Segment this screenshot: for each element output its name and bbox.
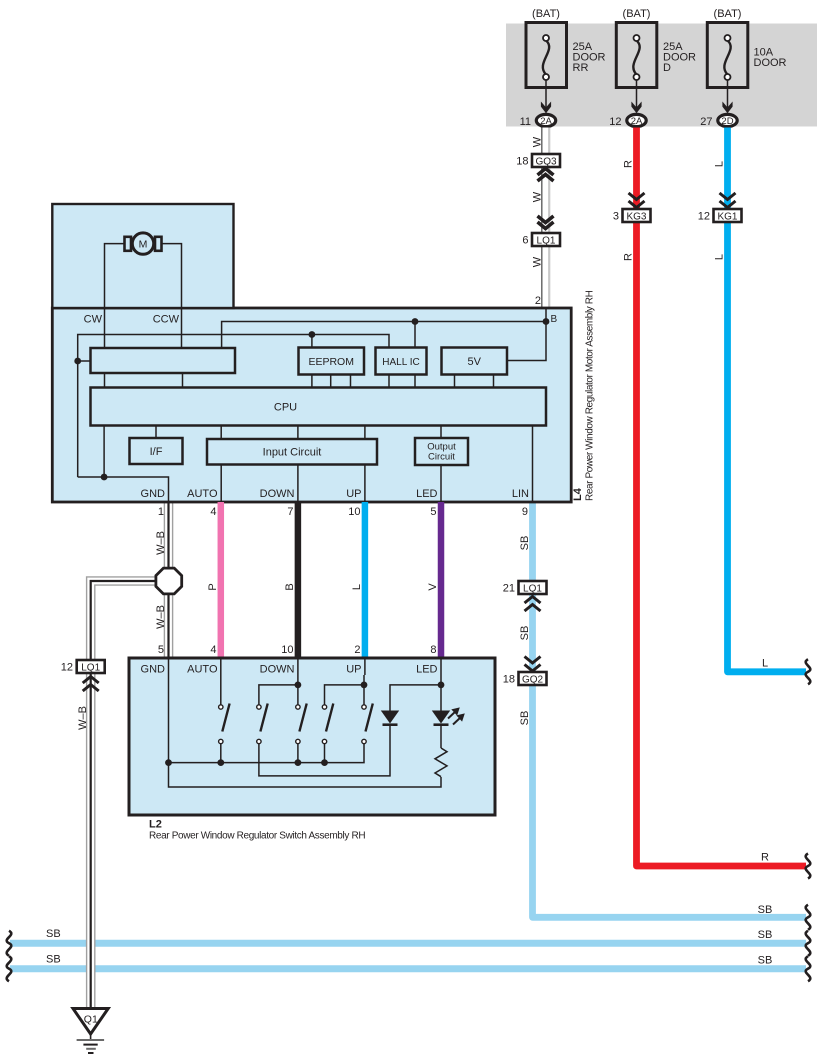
svg-text:UP: UP	[346, 664, 361, 676]
svg-text:2: 2	[354, 644, 360, 656]
connector GQ2 pin 18	[519, 672, 547, 685]
wire CPU to LIN pin 9	[532, 426, 534, 503]
wire 5V bottom pins	[455, 375, 494, 388]
svg-text:Circuit: Circuit	[428, 452, 455, 463]
svg-text:P: P	[207, 583, 219, 590]
wire fuse2 to connector 2A	[636, 80, 638, 113]
LED D2	[432, 707, 465, 724]
label SB (LIN wire, upper)	[519, 536, 531, 551]
svg-text:R: R	[623, 160, 635, 168]
diode D1	[381, 711, 399, 725]
chevron join on SB wire above GQ2 (pointing down)	[525, 657, 541, 672]
wire V (violet) LED	[438, 502, 445, 658]
svg-text:LIN: LIN	[512, 488, 529, 500]
block HALL IC	[376, 348, 427, 375]
arrow into connector 2D	[722, 102, 732, 114]
svg-text:GQ3: GQ3	[535, 156, 557, 167]
break symbol wire SB3 right edge	[806, 956, 811, 981]
svg-text:W–B: W–B	[155, 531, 167, 555]
wire motor CW lead	[105, 244, 125, 348]
block Output Circuit	[415, 438, 468, 465]
svg-text:W: W	[532, 256, 544, 267]
wire S2 bottom to diode bus 2	[259, 725, 390, 776]
svg-text:CCW: CCW	[153, 314, 180, 326]
svg-text:D: D	[663, 62, 671, 74]
break symbol wire SB2 right edge	[806, 931, 811, 956]
svg-text:M: M	[139, 239, 148, 251]
wire W-B branch from junction J octagon to ground (gray outline)	[91, 581, 160, 1008]
svg-text:L: L	[714, 161, 726, 167]
label SB (LIN wire, lower)	[519, 711, 531, 726]
junction dot LED	[438, 682, 445, 689]
svg-text:10: 10	[348, 506, 360, 518]
svg-text:(BAT): (BAT)	[714, 8, 742, 20]
svg-text:V: V	[427, 583, 439, 591]
svg-text:3: 3	[613, 211, 619, 223]
svg-text:W: W	[532, 136, 544, 147]
wire fuse3 to connector 2D	[727, 80, 729, 113]
arrow into connector 2A	[541, 102, 551, 114]
fuse 25A DOOR RR	[526, 23, 567, 88]
wire CPU to I/F	[155, 426, 157, 439]
svg-text:SB: SB	[519, 626, 531, 641]
svg-text:CPU: CPU	[274, 402, 297, 414]
svg-text:Rear Power Window Regulator Mo: Rear Power Window Regulator Motor Assemb…	[585, 290, 596, 501]
resistor	[435, 748, 447, 777]
svg-text:SB: SB	[758, 955, 773, 967]
motor assembly L4 upper box	[52, 204, 233, 308]
wire Output Circuit bottom pin	[440, 465, 442, 502]
chevron join on SB wire below LQ1 (pointing up)	[525, 597, 541, 612]
junction dot HALL IC top	[412, 318, 419, 325]
svg-text:Input Circuit: Input Circuit	[263, 447, 322, 459]
svg-text:SB: SB	[758, 929, 773, 941]
block CPU	[91, 388, 547, 426]
svg-text:W–B: W–B	[155, 605, 167, 629]
label V	[427, 583, 439, 591]
svg-text:1: 1	[158, 506, 164, 518]
junction dot GND rail	[101, 474, 108, 481]
junction dot S4 bus	[321, 759, 328, 766]
connector LQ1 pin 12	[77, 660, 105, 673]
wire line B (left rail to HALL IC)	[78, 335, 389, 478]
wire S4 bottom to bus	[324, 744, 326, 763]
connector KG1 pin 12	[714, 209, 742, 222]
driver block (unnamed)	[91, 348, 236, 373]
junction dot driver left	[74, 358, 81, 365]
svg-text:SB: SB	[519, 711, 531, 726]
wire W from 2A pin11 to motor box pin 2 (white band)	[542, 128, 549, 309]
arrow into connector 2A (fuse2)	[631, 102, 641, 114]
label W-B (GND column upper)	[155, 531, 167, 555]
wire SB (LIN) from motor box down and right to edge	[533, 502, 807, 917]
switch S3 (DOWN right)	[296, 704, 307, 744]
svg-text:12: 12	[609, 116, 621, 128]
connector LQ1 pin 6	[532, 233, 560, 246]
wire driver bottom pins to CPU	[105, 373, 183, 388]
wire W right edge	[548, 128, 550, 309]
svg-text:(BAT): (BAT)	[532, 8, 560, 20]
wire GND inside switch box	[169, 658, 442, 787]
svg-text:B: B	[551, 314, 558, 325]
break symbol wire SB1 right edge	[806, 905, 811, 930]
chevron join on W wire above LQ1 (pointing down)	[538, 216, 554, 229]
svg-text:27: 27	[700, 116, 712, 128]
junction dot GND bus	[165, 759, 172, 766]
svg-text:2D: 2D	[721, 116, 733, 127]
wire node B vertical to 5V	[507, 308, 546, 361]
wire B (black) DOWN	[295, 502, 302, 658]
block 5V	[442, 348, 508, 375]
svg-text:12: 12	[61, 662, 73, 674]
chevron join on R wire above KG3	[629, 193, 645, 208]
connector oval 2D pin 27	[718, 114, 737, 126]
fuse 10A DOOR	[707, 23, 748, 88]
svg-text:5: 5	[158, 644, 164, 656]
svg-text:8: 8	[430, 644, 436, 656]
motor M	[125, 233, 162, 254]
wire EEPROM bottom pins	[312, 375, 351, 388]
svg-text:W–B: W–B	[77, 706, 89, 730]
break symbol wire R right edge	[806, 854, 811, 879]
svg-text:Q1: Q1	[84, 1014, 98, 1026]
wire W-B GND column (black stripe)	[167, 502, 169, 658]
junction dot UP	[361, 682, 368, 689]
svg-text:L: L	[762, 658, 768, 670]
wire L (cyan) UP	[362, 502, 369, 658]
svg-text:2: 2	[535, 295, 541, 307]
svg-text:LQ1: LQ1	[537, 235, 556, 246]
svg-text:SB: SB	[46, 928, 61, 940]
svg-text:18: 18	[516, 156, 528, 168]
ground symbol Q1	[73, 1009, 108, 1054]
svg-text:L: L	[714, 254, 726, 260]
svg-text:SB: SB	[46, 954, 61, 966]
svg-text:18: 18	[503, 674, 515, 686]
wire S1 bottom to bus	[220, 744, 222, 763]
svg-text:B: B	[284, 583, 296, 590]
label W (middle)	[532, 191, 544, 202]
wire fuse1 to connector 2A	[545, 80, 547, 113]
svg-text:GND: GND	[141, 664, 166, 676]
svg-text:AUTO: AUTO	[187, 488, 218, 500]
svg-text:EEPROM: EEPROM	[308, 356, 354, 368]
svg-text:21: 21	[503, 583, 515, 595]
svg-text:2A: 2A	[631, 116, 643, 127]
connector GQ3 pin 18	[532, 154, 560, 167]
wire SB horizontal 3 (full width)	[10, 965, 806, 972]
break symbol wire L right edge	[806, 659, 811, 684]
wire LED to resistor	[440, 725, 442, 748]
svg-text:5: 5	[430, 506, 436, 518]
svg-text:DOWN: DOWN	[260, 488, 295, 500]
svg-text:11: 11	[520, 116, 531, 128]
label B	[284, 583, 296, 590]
svg-text:LQ1: LQ1	[81, 662, 100, 673]
svg-text:I/F: I/F	[150, 446, 163, 458]
junction dot EEPROM top	[309, 331, 316, 338]
chevron join on W wire below GQ3 (pointing up)	[538, 169, 554, 182]
svg-text:7: 7	[287, 506, 293, 518]
svg-text:W: W	[532, 191, 544, 202]
connector KG3 pin 3	[623, 209, 651, 222]
svg-text:4: 4	[210, 644, 216, 656]
junction dot node B	[543, 318, 550, 325]
label Rear Power Window Regulator Motor Assembly RH	[585, 290, 596, 501]
switch S5 (UP right)	[362, 704, 373, 744]
wire W-B GND column (gray outline)	[164, 502, 174, 658]
label L	[351, 584, 363, 590]
wire motor CCW lead	[162, 244, 182, 348]
svg-text:DOWN: DOWN	[260, 664, 295, 676]
svg-text:LED: LED	[416, 664, 437, 676]
wire common bus 1	[169, 744, 365, 763]
block EEPROM	[299, 348, 365, 375]
svg-text:GND: GND	[141, 488, 166, 500]
svg-text:9: 9	[522, 506, 528, 518]
break symbol wire SB3 left edge	[7, 956, 12, 981]
wire LED feed	[390, 658, 441, 711]
label L (vertical, lower)	[714, 254, 726, 260]
svg-text:10: 10	[281, 644, 293, 656]
svg-text:SB: SB	[519, 536, 531, 551]
svg-text:HALL IC: HALL IC	[382, 357, 419, 368]
svg-text:2A: 2A	[540, 116, 552, 127]
wire L (blue) from 2D pin27 down and right to edge	[728, 128, 807, 672]
wire P (pink) AUTO	[218, 502, 225, 658]
svg-text:RR: RR	[573, 62, 589, 74]
connector oval 2A pin 12	[627, 114, 646, 126]
svg-text:SB: SB	[758, 904, 773, 916]
block Input Circuit	[207, 439, 377, 465]
svg-text:L4: L4	[572, 487, 584, 501]
wire EEPROM top drop	[311, 335, 313, 348]
svg-text:GQ2: GQ2	[522, 674, 544, 685]
svg-text:R: R	[623, 253, 635, 261]
label L4	[572, 487, 584, 501]
switch S1 (AUTO)	[219, 704, 230, 744]
svg-text:DOOR: DOOR	[754, 57, 787, 69]
connector LQ1 pin 21	[519, 581, 547, 594]
svg-text:R: R	[761, 852, 769, 864]
junction dot S3 bus	[295, 759, 302, 766]
wire CPU to Output Circuit	[440, 426, 442, 439]
wire R (red) from 2A pin12 down and right to edge	[637, 128, 807, 867]
wire W-B branch (white band)	[91, 581, 160, 1008]
label P	[207, 583, 219, 590]
label W-B (GND column lower)	[155, 605, 167, 629]
switch assembly L2 box	[129, 658, 495, 815]
label R (vertical, lower)	[623, 253, 635, 261]
wire HALL IC top drop	[414, 322, 416, 348]
junction octagon J	[156, 568, 182, 594]
svg-text:L: L	[351, 584, 363, 590]
svg-text:(BAT): (BAT)	[623, 8, 651, 20]
wire W left edge	[541, 128, 543, 309]
junction block (gray band)	[506, 24, 817, 127]
wire line A (driver to node B)	[222, 322, 546, 349]
junction dot S1 bus	[217, 759, 224, 766]
svg-text:5V: 5V	[467, 356, 481, 368]
wire UP feed	[325, 658, 365, 705]
label W (upper)	[532, 136, 544, 147]
wire Input Circuit bottom pins	[221, 465, 365, 503]
svg-text:LED: LED	[416, 488, 437, 500]
switch S2 (DOWN left)	[257, 704, 268, 744]
wire CPU GND drop	[103, 426, 105, 478]
svg-text:6: 6	[522, 235, 528, 247]
fuse 25A DOOR D	[616, 23, 657, 88]
label SB (LIN wire, middle)	[519, 626, 531, 641]
wire W-B branch (black stripe)	[91, 581, 160, 1008]
svg-text:KG1: KG1	[717, 211, 737, 222]
wire SB horizontal 2 (full width)	[10, 940, 806, 947]
svg-text:12: 12	[698, 211, 710, 223]
chevron join on W-B wire below LQ1 (pointing up)	[83, 677, 99, 692]
svg-text:Rear Power Window Regulator Sw: Rear Power Window Regulator Switch Assem…	[149, 831, 365, 842]
junction dot DOWN	[295, 682, 302, 689]
wire AUTO to switch S1	[220, 658, 222, 705]
chevron join on L wire above KG1	[720, 193, 736, 208]
svg-text:LQ1: LQ1	[523, 583, 542, 594]
motor assembly L4 main box	[52, 308, 571, 502]
wire CPU to Input Circuit pins	[221, 426, 365, 440]
label W (lower)	[532, 256, 544, 267]
svg-text:4: 4	[210, 506, 216, 518]
svg-text:CW: CW	[84, 314, 103, 326]
svg-text:AUTO: AUTO	[187, 664, 218, 676]
svg-text:UP: UP	[346, 488, 361, 500]
wire DOWN feed	[259, 658, 298, 705]
wire W-B GND column (white band)	[165, 502, 172, 658]
switch S4 (UP left)	[322, 704, 333, 744]
block I/F	[130, 438, 183, 464]
break symbol wire SB2 left edge	[7, 931, 12, 956]
svg-text:L2: L2	[149, 819, 162, 831]
wire HALL IC bottom pins	[389, 375, 415, 388]
label L (vertical, upper)	[714, 161, 726, 167]
wire S3 bottom to bus	[297, 744, 299, 763]
wire stub to driver left	[78, 360, 91, 362]
connector oval 2A pin 11	[536, 114, 555, 126]
label R (vertical, upper)	[623, 160, 635, 168]
wire GND rail to pin 1	[78, 477, 169, 502]
svg-text:KG3: KG3	[626, 211, 646, 222]
label W-B (branch)	[77, 706, 89, 730]
